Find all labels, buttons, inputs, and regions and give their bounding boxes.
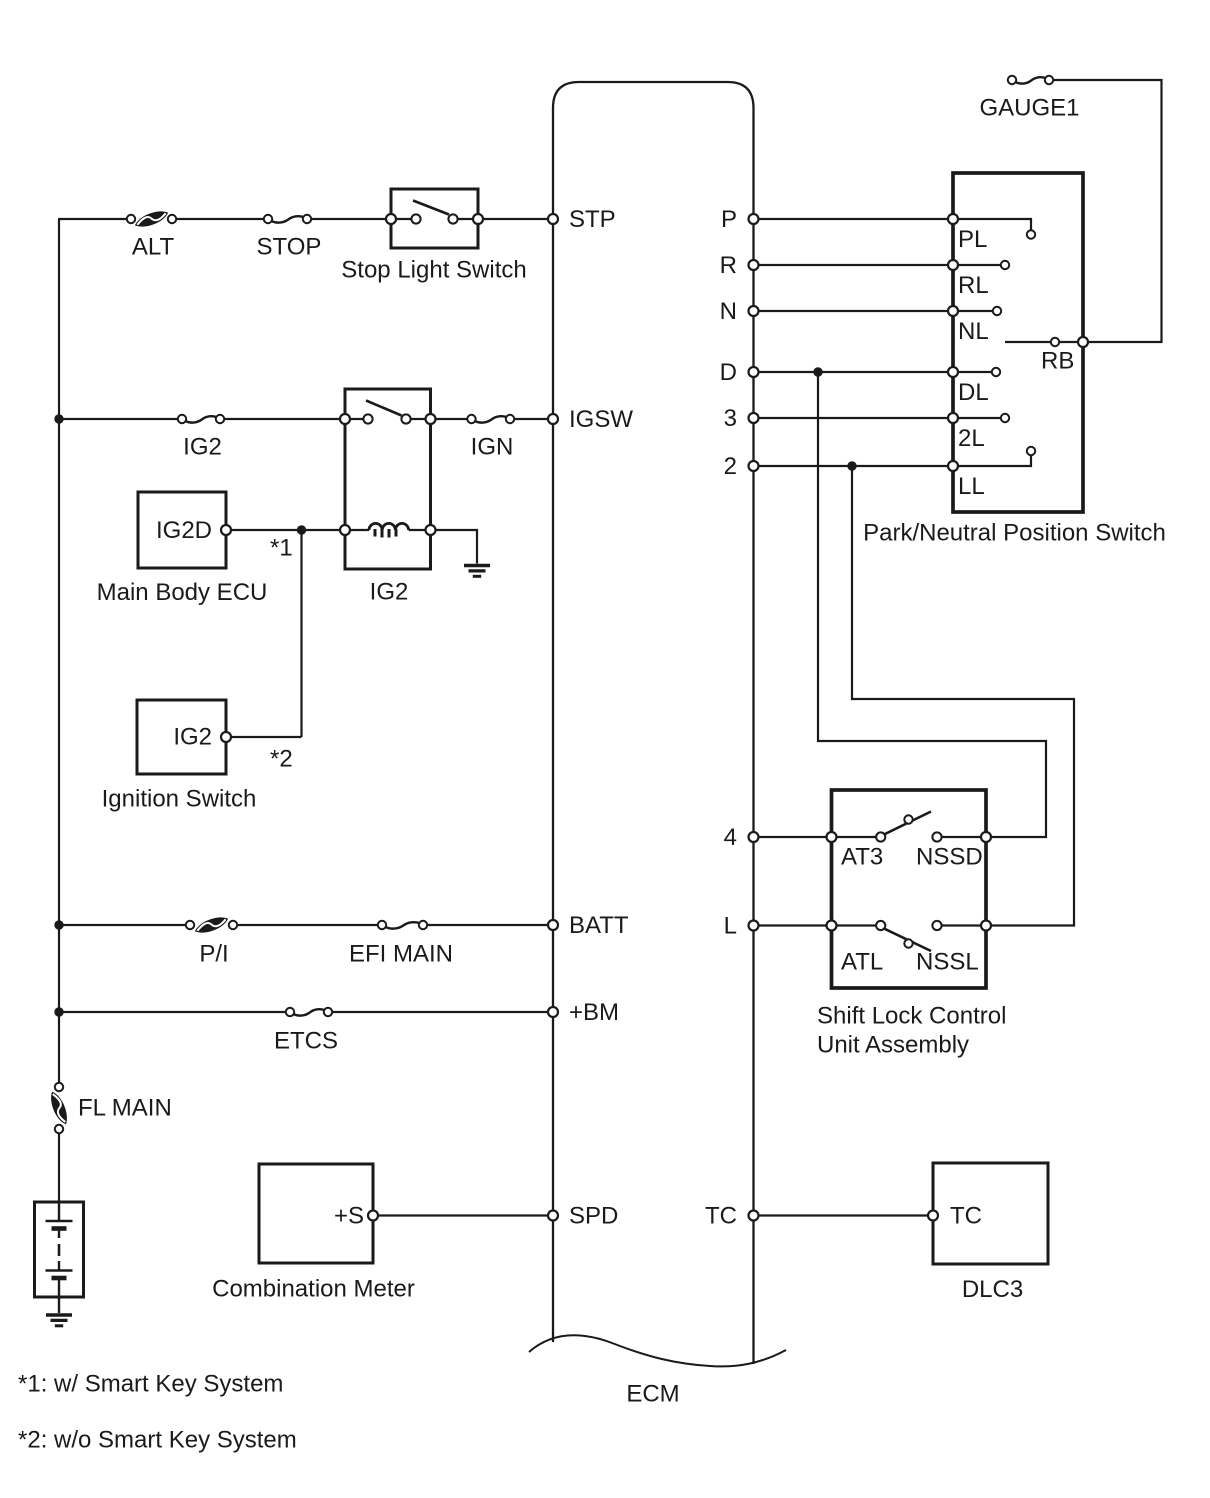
terminal ECM 4 <box>749 832 759 842</box>
terminal PNP 3 row <box>948 413 958 423</box>
contact NL <box>993 307 1001 315</box>
wire ALT to STOP fuse <box>177 218 268 220</box>
wire left battery bus vertical (below FL MAIN) <box>58 1129 60 1203</box>
svg-text:2: 2 <box>724 453 737 480</box>
svg-text:NSSD: NSSD <box>916 844 983 871</box>
junction bus / BATT row <box>54 920 63 929</box>
terminal ECM TC <box>749 1211 759 1221</box>
terminal ECM IGSW <box>548 414 558 424</box>
wire relay to IGN fuse <box>437 418 472 420</box>
fusible link P/I <box>186 916 237 935</box>
svg-text:Ignition Switch: Ignition Switch <box>102 786 257 813</box>
wire ECM 3 to park/neutral switch <box>754 417 954 419</box>
wire ECM R to park/neutral switch <box>754 264 954 266</box>
terminal Combination Meter +S <box>368 1211 378 1221</box>
wire ignition switch to branch node <box>232 736 302 738</box>
wire relay switch row left stub <box>345 418 368 420</box>
terminal RB <box>1078 337 1088 347</box>
svg-text:4: 4 <box>724 824 737 851</box>
svg-text:*1: *1 <box>270 535 293 562</box>
svg-text:R: R <box>720 252 737 279</box>
PNP P row bend to PL contact <box>953 219 1031 230</box>
fuse GAUGE1 <box>1008 76 1053 84</box>
wire ECM N to park/neutral switch <box>754 310 954 312</box>
svg-text:Combination Meter: Combination Meter <box>212 1276 415 1303</box>
wire bus to fusible link P/I <box>59 924 190 926</box>
box Main Body ECU <box>138 492 226 568</box>
terminal ECM P <box>749 214 759 224</box>
svg-text:ECM: ECM <box>626 1381 679 1408</box>
svg-text:BATT: BATT <box>569 912 629 939</box>
svg-text:TC: TC <box>950 1203 982 1230</box>
svg-text:FL MAIN: FL MAIN <box>78 1095 172 1122</box>
terminal PNP 2 row <box>948 461 958 471</box>
wire relay coil row right stub <box>409 529 431 531</box>
PNP 3 row stub <box>953 417 1001 419</box>
switch arm ATL-NSSL <box>884 929 931 952</box>
svg-text:RB: RB <box>1041 348 1074 375</box>
svg-text:*2: w/o Smart Key System: *2: w/o Smart Key System <box>18 1427 297 1454</box>
svg-text:IG2D: IG2D <box>156 517 212 544</box>
terminal stop light switch right <box>473 214 483 224</box>
box Combination Meter <box>259 1164 373 1263</box>
contact RB inner <box>1051 338 1059 346</box>
wire P/I to EFI MAIN fuse <box>238 924 382 926</box>
svg-text:TC: TC <box>705 1203 737 1230</box>
wire bus to IG2 fuse <box>59 418 182 420</box>
terminal ECM SPD <box>548 1211 558 1221</box>
svg-text:Unit Assembly: Unit Assembly <box>817 1032 969 1059</box>
terminal PNP N row <box>948 306 958 316</box>
terminal DLC3 TC <box>928 1211 938 1221</box>
svg-text:RL: RL <box>958 272 989 299</box>
wire shift lock rowL left stub <box>832 924 881 926</box>
wire GAUGE1 to RB <box>1054 80 1162 342</box>
svg-text:ATL: ATL <box>841 949 883 976</box>
ground after relay coil <box>464 566 490 577</box>
wire ECM P to park/neutral switch <box>754 218 954 220</box>
svg-text:STOP: STOP <box>257 234 322 261</box>
wire branch vertical *2 to *1 node <box>300 530 302 737</box>
wire relay coil to ground <box>437 530 478 564</box>
wire +S to ECM SPD <box>379 1214 553 1216</box>
terminal ECM L <box>749 921 759 931</box>
svg-text:P/I: P/I <box>199 941 228 968</box>
terminal shift lock row4 left <box>827 832 837 842</box>
PNP D row stub <box>953 371 992 373</box>
fusible link FL MAIN (vertical) <box>49 1083 69 1133</box>
svg-text:IGN: IGN <box>471 434 514 461</box>
contact DL <box>992 368 1000 376</box>
relay box IG2 (ignition switch contact + coil) <box>345 389 431 569</box>
wire relay switch row right stub <box>406 418 431 420</box>
wire ECM 4 to shift lock <box>754 836 832 838</box>
contact 2L <box>1001 414 1009 422</box>
junction bus / +BM row <box>54 1007 63 1016</box>
PNP RB common bar <box>1005 341 1083 343</box>
terminal PNP D row <box>948 367 958 377</box>
contact relay switch right <box>401 414 410 423</box>
wire STP row: bus to fusible link ALT <box>58 218 131 220</box>
svg-text:D: D <box>720 359 737 386</box>
contact NSSD <box>932 832 941 841</box>
terminal PNP R row <box>948 260 958 270</box>
box Shift Lock Control Unit Assembly <box>832 790 987 988</box>
coil L of IG2 relay <box>369 523 409 537</box>
box DLC3 <box>933 1163 1048 1264</box>
terminal ECM 3 <box>749 413 759 423</box>
contact RL <box>1001 261 1009 269</box>
wire ECM TC to DLC3 <box>754 1214 934 1216</box>
terminal ECM N <box>749 306 759 316</box>
svg-text:N: N <box>720 298 737 325</box>
svg-text:+S: +S <box>334 1203 364 1230</box>
terminal ECM BATT <box>548 920 558 930</box>
wire IGN fuse to ECM IGSW <box>515 418 553 420</box>
svg-text:ALT: ALT <box>132 234 175 261</box>
svg-text:ETCS: ETCS <box>274 1028 338 1055</box>
terminal ECM +BM <box>548 1007 558 1017</box>
contact NSSL <box>932 921 941 930</box>
terminal relay coil right <box>426 525 436 535</box>
fuse IG2 <box>178 415 224 423</box>
PNP 2 row bend to LL contact <box>953 456 1031 467</box>
svg-text:IG2: IG2 <box>173 724 212 751</box>
terminal Main Body ECU IG2D <box>221 525 231 535</box>
svg-text:IG2: IG2 <box>183 434 222 461</box>
terminal shift lock rowL left <box>827 921 837 931</box>
battery box <box>35 1202 84 1297</box>
battery internals <box>46 1203 73 1313</box>
svg-text:PL: PL <box>958 226 987 253</box>
fuse IGN <box>467 415 514 423</box>
wire shift lock row4 left stub <box>832 836 881 838</box>
svg-text:NSSL: NSSL <box>916 949 979 976</box>
wire ECM D to park/neutral switch <box>754 371 954 373</box>
svg-text:AT3: AT3 <box>841 844 883 871</box>
svg-text:SPD: SPD <box>569 1203 618 1230</box>
svg-text:STP: STP <box>569 206 616 233</box>
switch box Stop Light Switch <box>391 189 478 248</box>
ground below battery <box>46 1315 72 1326</box>
contact relay switch left <box>363 414 372 423</box>
wire ECM 2 to park/neutral switch <box>754 465 954 467</box>
svg-text:IG2: IG2 <box>370 579 409 606</box>
junction node *1 <box>297 525 306 534</box>
op-amp none; ECM body outline (rounded, open bottom with wave) <box>553 82 754 1364</box>
junction node 2 branch <box>847 461 856 470</box>
contact LL <box>1027 447 1035 455</box>
wire ETCS to ECM +BM <box>333 1011 553 1013</box>
wire Main Body ECU IG2D to relay coil (through node *1) <box>226 529 345 531</box>
contact AT3 <box>876 832 885 841</box>
PNP N row stub <box>953 310 993 312</box>
contact ATL <box>876 921 885 930</box>
wire bus to ETCS fuse <box>59 1011 290 1013</box>
svg-text:L: L <box>724 913 737 940</box>
terminal stop light switch left <box>386 214 396 224</box>
svg-text:Park/Neutral Position Switch: Park/Neutral Position Switch <box>863 520 1166 547</box>
contact stop light switch left <box>411 214 420 223</box>
switch arm AT3-NSSD <box>884 812 931 835</box>
pivot circle ATL arm <box>904 939 912 947</box>
svg-text:*1: w/ Smart Key System: *1: w/ Smart Key System <box>18 1371 283 1398</box>
terminal relay switch row left <box>340 414 350 424</box>
pivot circle AT3 arm <box>904 815 912 823</box>
contact stop light switch right <box>448 214 457 223</box>
wire shift lock row4 right stub <box>937 836 986 838</box>
terminal Ignition Switch IG2 <box>221 732 231 742</box>
PNP R row stub <box>953 264 1001 266</box>
svg-text:3: 3 <box>724 405 737 432</box>
contact PL <box>1027 230 1035 238</box>
wire EFI MAIN to ECM BATT <box>428 924 553 926</box>
wire STOP fuse to Stop Light Switch <box>312 218 391 220</box>
wire shift lock rowL right stub <box>937 924 986 926</box>
svg-text:+BM: +BM <box>569 999 619 1026</box>
terminal PNP P row <box>948 214 958 224</box>
svg-text:EFI MAIN: EFI MAIN <box>349 941 453 968</box>
svg-text:GAUGE1: GAUGE1 <box>979 95 1079 122</box>
terminal ECM D <box>749 367 759 377</box>
fuse ETCS <box>286 1008 332 1016</box>
terminal relay switch row right <box>426 414 436 424</box>
svg-text:IGSW: IGSW <box>569 406 633 433</box>
svg-text:DLC3: DLC3 <box>962 1276 1023 1303</box>
wire 2 branch down-right to shift lock NSSL <box>852 466 1074 926</box>
junction bus / IG2 fuse row <box>54 414 63 423</box>
fuse STOP <box>264 215 311 223</box>
switch arm stop light switch <box>413 201 449 215</box>
svg-text:Main Body ECU: Main Body ECU <box>97 579 268 606</box>
svg-text:Stop Light Switch: Stop Light Switch <box>341 257 526 284</box>
terminal shift lock rowL right <box>981 921 991 931</box>
svg-text:*2: *2 <box>270 746 293 773</box>
wire inside stop light switch left stub <box>391 218 416 220</box>
wire relay coil row left stub <box>345 529 369 531</box>
wire D branch down-right to shift lock NSSD <box>818 372 1046 837</box>
wire stop light switch to ECM STP <box>484 218 553 220</box>
switch arm ignition SW2 contact <box>366 401 402 416</box>
box Park/Neutral Position Switch <box>953 173 1083 512</box>
wire IG2 fuse to ignition relay box <box>225 418 345 420</box>
wire inside stop light switch right stub <box>453 218 478 220</box>
svg-text:P: P <box>721 206 737 233</box>
ECM bottom break wave <box>529 1335 786 1366</box>
fusible link ALT <box>127 210 176 229</box>
terminal relay coil left <box>340 525 350 535</box>
svg-text:Shift Lock Control: Shift Lock Control <box>817 1003 1006 1030</box>
svg-text:LL: LL <box>958 473 985 500</box>
box Ignition Switch <box>137 700 226 774</box>
terminal ECM 2 <box>749 461 759 471</box>
fuse EFI MAIN <box>378 921 427 929</box>
junction node D branch <box>813 367 822 376</box>
svg-text:DL: DL <box>958 379 989 406</box>
wire ECM L to shift lock <box>754 924 832 926</box>
terminal ECM STP <box>548 214 558 224</box>
svg-text:NL: NL <box>958 318 989 345</box>
svg-text:2L: 2L <box>958 425 985 452</box>
wire left battery bus vertical (top section) <box>58 219 60 1087</box>
terminal ECM R <box>749 260 759 270</box>
terminal shift lock row4 right <box>981 832 991 842</box>
